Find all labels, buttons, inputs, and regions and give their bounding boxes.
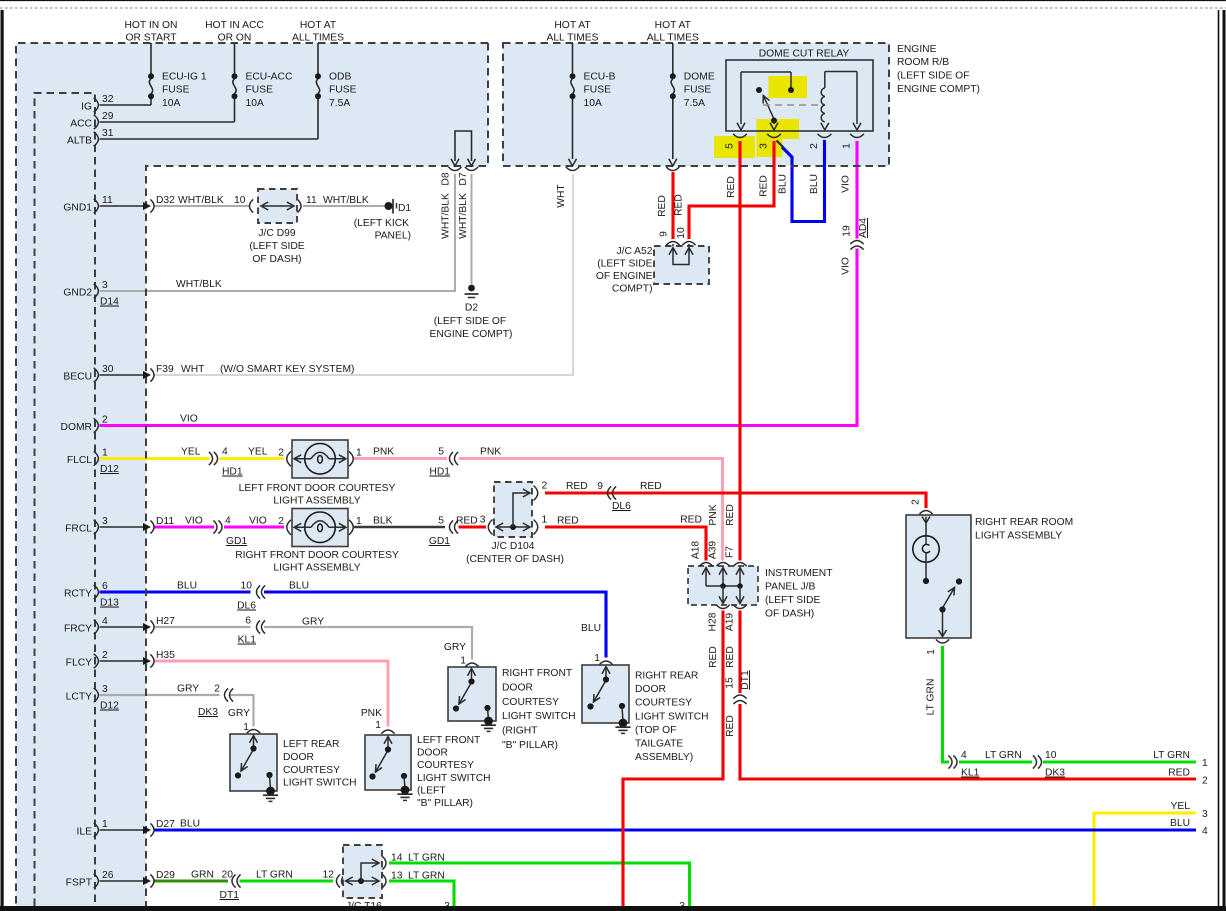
fuse ECU-ACC 10A	[234, 43, 236, 74]
svg-text:ENGINE COMPT): ENGINE COMPT)	[430, 329, 513, 340]
svg-text:29: 29	[102, 111, 114, 122]
svg-text:12: 12	[323, 870, 335, 881]
svg-text:ECU-B: ECU-B	[584, 72, 616, 83]
switch box	[365, 735, 411, 790]
svg-text:OF DASH): OF DASH)	[252, 254, 301, 265]
svg-text:13: 13	[391, 871, 403, 882]
switch arm	[594, 682, 606, 702]
svg-text:FLCY: FLCY	[66, 658, 92, 669]
svg-text:3: 3	[102, 516, 108, 527]
svg-text:YEL: YEL	[248, 447, 268, 458]
svg-text:10A: 10A	[162, 98, 180, 109]
svg-text:D8: D8	[441, 172, 452, 185]
wire YEL FLCL pin to HD1	[100, 457, 210, 460]
svg-text:BLU: BLU	[581, 623, 601, 634]
svg-text:LT GRN: LT GRN	[408, 871, 445, 882]
svg-text:BLU: BLU	[180, 819, 200, 830]
svg-text:RED: RED	[725, 504, 736, 526]
svg-text:RED: RED	[456, 516, 478, 527]
svg-text:RED: RED	[674, 194, 685, 216]
svg-text:3: 3	[1202, 809, 1208, 820]
svg-text:19: 19	[842, 225, 853, 237]
svg-text:HD1: HD1	[429, 467, 450, 478]
junction J/C D104	[494, 482, 532, 537]
svg-text:2: 2	[1202, 776, 1208, 787]
svg-text:7.5A: 7.5A	[684, 98, 705, 109]
wire D32 box exit arrow	[100, 205, 144, 207]
svg-text:10: 10	[241, 581, 253, 592]
svg-text:"B" PILLAR): "B" PILLAR)	[417, 798, 473, 809]
svg-text:ECU-IG 1: ECU-IG 1	[162, 72, 207, 83]
svg-text:D2: D2	[465, 303, 478, 314]
switch fixed contact to ground	[619, 703, 625, 709]
svg-text:VIO: VIO	[841, 175, 852, 193]
svg-text:VIO: VIO	[185, 516, 203, 527]
relay pin 1 connector	[850, 134, 864, 138]
wire GRY DK3 to left rear door switch	[230, 695, 254, 727]
svg-text:(LEFT KICK: (LEFT KICK	[354, 218, 409, 229]
svg-text:RIGHT REAR: RIGHT REAR	[635, 671, 698, 682]
svg-text:2: 2	[214, 684, 220, 695]
svg-text:PANEL): PANEL)	[375, 231, 411, 242]
svg-text:PNK: PNK	[708, 504, 719, 525]
wire WHT/BLK D7 to D2 ground	[471, 174, 473, 284]
svg-text:WHT: WHT	[556, 184, 567, 208]
wire D29 box exit arrow	[100, 880, 144, 882]
svg-text:LCTY: LCTY	[66, 692, 92, 703]
svg-text:ODB: ODB	[329, 72, 351, 83]
svg-text:"B" PILLAR): "B" PILLAR)	[502, 740, 558, 751]
svg-text:J/C D104: J/C D104	[492, 541, 535, 552]
svg-text:10A: 10A	[584, 98, 602, 109]
wire D27 box exit arrow	[100, 829, 144, 831]
svg-text:(LEFT SIDE OF: (LEFT SIDE OF	[434, 316, 506, 327]
ground	[619, 719, 628, 728]
svg-text:1: 1	[102, 448, 108, 459]
svg-text:3: 3	[102, 280, 108, 291]
svg-text:LIGHT ASSEMBLY: LIGHT ASSEMBLY	[273, 496, 360, 507]
svg-text:F7: F7	[725, 546, 736, 558]
svg-text:GRY: GRY	[444, 642, 466, 653]
svg-text:ACC: ACC	[70, 119, 92, 130]
svg-text:WHT/BLK: WHT/BLK	[323, 195, 369, 206]
ground	[401, 786, 410, 795]
svg-text:GND1: GND1	[63, 203, 92, 214]
svg-text:ECU-ACC: ECU-ACC	[246, 72, 293, 83]
connector 4 GD1	[213, 520, 217, 533]
svg-text:RIGHT FRONT DOOR COURTESY: RIGHT FRONT DOOR COURTESY	[235, 550, 399, 561]
wire RED instrument panel A19 to DT1 to right edge row 2	[738, 611, 741, 694]
svg-text:D7: D7	[458, 172, 469, 185]
svg-text:ALTB: ALTB	[67, 136, 92, 147]
svg-text:5: 5	[438, 447, 444, 458]
switch pin arrow	[384, 737, 392, 744]
wire WHT/BLK GND2 to D8	[100, 174, 456, 291]
wire BLU dome cut relay pin3 to pin2	[782, 140, 825, 222]
svg-text:3: 3	[102, 684, 108, 695]
svg-text:FUSE: FUSE	[246, 85, 274, 96]
svg-text:COMPT): COMPT)	[612, 284, 653, 295]
svg-text:GRY: GRY	[228, 708, 250, 719]
svg-text:D11: D11	[156, 516, 174, 527]
svg-text:4: 4	[222, 447, 228, 458]
svg-text:YEL: YEL	[181, 447, 201, 458]
wire VIO DOMR to dome cut relay pin 1	[100, 249, 858, 426]
svg-text:LIGHT SWITCH: LIGHT SWITCH	[417, 773, 491, 784]
fuse ECU-IG 1 10A	[150, 43, 152, 74]
relay DOME CUT RELAY box	[726, 60, 873, 131]
svg-text:LEFT FRONT DOOR COURTESY: LEFT FRONT DOOR COURTESY	[239, 483, 396, 494]
switch arm	[376, 752, 388, 772]
svg-text:DOMR: DOMR	[61, 422, 92, 433]
background blue region: engine ECU / left column box fill	[16, 43, 488, 166]
wire VIO FRCL D11 to GD1	[154, 525, 214, 528]
svg-text:1: 1	[356, 447, 362, 458]
wire BLU RCTY to DL6	[100, 590, 251, 593]
svg-text:DOOR: DOOR	[502, 682, 533, 693]
svg-text:DK3: DK3	[1045, 768, 1065, 779]
svg-text:3: 3	[480, 515, 486, 526]
svg-text:1: 1	[460, 656, 466, 667]
wire LT GRN right rear room light to KL1 DK3 row 1	[943, 646, 950, 762]
svg-text:RIGHT FRONT: RIGHT FRONT	[502, 668, 573, 679]
svg-text:11: 11	[306, 195, 317, 206]
svg-text:OR ON: OR ON	[218, 33, 252, 44]
switch pin arrow	[468, 669, 476, 676]
svg-text:TAILGATE: TAILGATE	[635, 739, 683, 750]
connector 4 HD1	[209, 452, 213, 465]
svg-text:BLU: BLU	[177, 581, 197, 592]
svg-text:HOT IN ACC: HOT IN ACC	[205, 20, 264, 31]
svg-text:DOOR: DOOR	[635, 684, 666, 695]
svg-text:BECU: BECU	[63, 372, 92, 383]
svg-text:HOT AT: HOT AT	[554, 20, 591, 31]
svg-text:20: 20	[222, 870, 234, 881]
svg-text:A18: A18	[691, 541, 702, 560]
svg-text:D32: D32	[156, 195, 175, 206]
svg-text:OR START: OR START	[125, 33, 177, 44]
lamp connectors	[287, 451, 291, 466]
svg-text:GRN: GRN	[191, 870, 214, 881]
svg-text:4: 4	[1202, 826, 1208, 837]
svg-text:FRCL: FRCL	[65, 524, 92, 535]
highlight over relay pin 5	[714, 136, 755, 158]
wire D11 box exit arrow	[100, 526, 144, 528]
relay pin 2 connector	[818, 134, 832, 138]
svg-text:10: 10	[1045, 750, 1057, 761]
svg-text:RED: RED	[725, 646, 736, 668]
svg-text:30: 30	[102, 364, 114, 375]
wire LT GRN DT1 to J/C T16	[240, 879, 334, 882]
svg-text:(RIGHT: (RIGHT	[502, 726, 538, 737]
svg-text:2: 2	[542, 481, 548, 492]
svg-text:F39: F39	[156, 364, 174, 375]
svg-text:BLU: BLU	[778, 174, 789, 194]
connector 10 DK3 row1	[1033, 755, 1037, 768]
svg-text:GRY: GRY	[177, 684, 199, 695]
svg-text:LT GRN: LT GRN	[256, 870, 293, 881]
engine room R/B dashed box border	[503, 43, 889, 166]
svg-text:LT GRN: LT GRN	[985, 750, 1022, 761]
svg-text:DOME: DOME	[684, 72, 715, 83]
wire GRY FRCY to KL1	[154, 626, 251, 628]
svg-text:FRCY: FRCY	[64, 624, 92, 635]
svg-text:4: 4	[961, 750, 967, 761]
svg-text:(LEFT SIDE: (LEFT SIDE	[249, 241, 304, 252]
svg-text:GRY: GRY	[302, 617, 324, 628]
ground	[484, 717, 493, 726]
svg-text:BLU: BLU	[809, 174, 820, 194]
svg-text:COURTESY: COURTESY	[502, 697, 559, 708]
wire WHT/BLK J/C D99 to D1	[303, 205, 385, 207]
svg-text:DT1: DT1	[220, 890, 240, 901]
svg-text:3: 3	[759, 143, 770, 149]
svg-text:RED: RED	[557, 516, 579, 527]
svg-text:DOOR: DOOR	[417, 748, 448, 759]
svg-text:YEL: YEL	[1171, 801, 1191, 812]
svg-text:DK3: DK3	[198, 707, 218, 718]
wire GRN FSPT D29 to DT1	[154, 880, 228, 883]
ECU inner connector dashed box	[35, 93, 96, 906]
svg-text:LT GRN: LT GRN	[1153, 750, 1190, 761]
svg-text:10A: 10A	[246, 98, 264, 109]
wire PNK HD1 to instrument panel A39	[459, 459, 723, 561]
wire GRY LCTY to DK3	[100, 694, 220, 696]
svg-text:WHT/BLK: WHT/BLK	[178, 195, 224, 206]
svg-text:7.5A: 7.5A	[329, 98, 350, 109]
svg-text:5: 5	[725, 143, 736, 149]
relay coil frame	[825, 71, 857, 73]
lamp bulb	[305, 444, 336, 475]
svg-text:KL1: KL1	[238, 635, 257, 646]
svg-text:RED: RED	[708, 646, 719, 668]
svg-text:2: 2	[278, 447, 284, 458]
highlight under relay pin 3	[757, 139, 783, 157]
svg-text:RED: RED	[725, 715, 736, 737]
svg-text:HOT AT: HOT AT	[655, 20, 692, 31]
highlight over relay contact	[769, 76, 808, 98]
svg-text:RED: RED	[1168, 768, 1190, 779]
courtesy lamp box	[292, 440, 348, 478]
wire H35 box exit arrow	[100, 660, 144, 662]
svg-text:FUSE: FUSE	[162, 85, 190, 96]
wire WHT BECU F39 to ECU-B fuse	[154, 174, 573, 375]
svg-text:10: 10	[234, 195, 246, 206]
svg-text:ILE: ILE	[77, 827, 93, 838]
background blue region: engine room R/B box fill	[503, 43, 889, 166]
page frame	[0, 0, 1226, 2]
svg-text:2: 2	[102, 415, 108, 426]
wire RED GD1 to J/C D104 pin 3	[459, 525, 487, 528]
fuse DOME 7.5A	[672, 43, 674, 74]
wire BLU ILE row 4	[154, 828, 1196, 831]
svg-text:BLU: BLU	[289, 581, 309, 592]
svg-text:PNK: PNK	[480, 447, 501, 458]
svg-text:WHT/BLK: WHT/BLK	[176, 279, 222, 290]
junction J/C A52	[654, 246, 709, 284]
switch fixed contact to ground	[484, 705, 490, 711]
lamp connectors	[287, 520, 291, 535]
wire RED instrument panel H28 down-left to bottom	[623, 611, 723, 907]
svg-text:COURTESY: COURTESY	[283, 765, 340, 776]
switch box	[230, 734, 277, 791]
svg-text:LIGHT ASSEMBLY: LIGHT ASSEMBLY	[975, 531, 1062, 542]
wire BLK FRCL lamp to GD1	[354, 526, 445, 528]
wire WHT/BLK GND1 to J/C D99	[154, 205, 250, 207]
svg-text:FUSE: FUSE	[584, 85, 612, 96]
svg-text:DOOR: DOOR	[283, 752, 314, 763]
relay pin 5 connector	[733, 134, 747, 138]
svg-text:1: 1	[356, 516, 362, 527]
svg-text:FUSE: FUSE	[684, 85, 712, 96]
wire GRY KL1 to right front door switch	[264, 627, 472, 660]
svg-text:4: 4	[225, 516, 231, 527]
svg-text:VIO: VIO	[841, 257, 852, 275]
wire RED J/C D104 pin 2 to right rear room light	[545, 493, 926, 508]
svg-text:KL1: KL1	[961, 768, 980, 779]
svg-text:(W/O SMART KEY SYSTEM): (W/O SMART KEY SYSTEM)	[220, 364, 354, 375]
junction instrument panel J/B	[688, 566, 758, 605]
svg-text:2: 2	[911, 499, 922, 505]
svg-text:H35: H35	[156, 650, 175, 661]
svg-text:LIGHT ASSEMBLY: LIGHT ASSEMBLY	[273, 563, 360, 574]
svg-text:GD1: GD1	[429, 536, 450, 547]
svg-text:9: 9	[659, 231, 670, 237]
svg-text:15: 15	[725, 677, 736, 689]
svg-text:HOT IN ON: HOT IN ON	[124, 20, 177, 31]
svg-text:11: 11	[102, 195, 113, 206]
svg-text:HOT AT: HOT AT	[300, 20, 337, 31]
svg-text:D27: D27	[156, 819, 175, 830]
svg-text:1: 1	[375, 720, 381, 731]
svg-text:PNK: PNK	[373, 447, 394, 458]
switch pin arrow	[250, 736, 258, 743]
fuse ODB 7.5A	[317, 43, 319, 74]
svg-text:ENGINE: ENGINE	[897, 44, 937, 55]
svg-text:WHT/BLK: WHT/BLK	[441, 193, 452, 239]
lamp bulb	[305, 512, 336, 543]
svg-text:VIO: VIO	[180, 414, 198, 425]
switch box	[582, 665, 629, 723]
svg-text:FUSE: FUSE	[329, 85, 357, 96]
wire RED J/C D104 pin 1 to instrument panel A18	[545, 527, 706, 561]
svg-text:LIGHT SWITCH: LIGHT SWITCH	[502, 711, 576, 722]
svg-text:ALL TIMES: ALL TIMES	[546, 33, 598, 44]
svg-text:PNK: PNK	[361, 708, 382, 719]
svg-text:DL6: DL6	[612, 501, 631, 512]
wire RED relay pin 5 to instrument panel F7	[738, 141, 741, 561]
svg-text:1: 1	[926, 649, 937, 655]
switch fixed contact to ground	[266, 772, 272, 778]
svg-text:(LEFT SIDE: (LEFT SIDE	[765, 595, 820, 606]
svg-text:(CENTER OF DASH): (CENTER OF DASH)	[466, 554, 564, 565]
svg-text:LT GRN: LT GRN	[408, 853, 445, 864]
svg-text:(LEFT SIDE OF: (LEFT SIDE OF	[897, 71, 969, 82]
svg-text:1: 1	[842, 143, 853, 149]
svg-text:ROOM R/B: ROOM R/B	[897, 57, 949, 68]
connector 19 AD4 on VIO	[850, 240, 863, 244]
relay internal contact frame	[741, 71, 791, 73]
wire RED relay pin 3 to J/C A52 pin 10	[689, 141, 774, 239]
svg-text:ENGINE COMPT): ENGINE COMPT)	[897, 84, 980, 95]
relay fixed contact	[756, 87, 762, 93]
svg-text:LIGHT SWITCH: LIGHT SWITCH	[283, 778, 357, 789]
svg-text:D12: D12	[100, 701, 119, 712]
svg-text:D12: D12	[100, 464, 119, 475]
svg-text:DL6: DL6	[237, 601, 256, 612]
svg-text:VIO: VIO	[249, 516, 267, 527]
ground D2	[468, 285, 475, 292]
relay pin 1 terminal	[856, 72, 858, 125]
wire F39 box exit arrow	[100, 374, 144, 376]
svg-text:6: 6	[245, 616, 251, 627]
svg-text:1: 1	[542, 515, 548, 526]
svg-text:FSPT: FSPT	[66, 878, 93, 889]
wire YEL right edge row 3	[1094, 813, 1196, 906]
switch pin arrow	[602, 667, 610, 674]
highlight over relay pin 3	[757, 119, 800, 139]
engine ECU dashed box border	[16, 43, 488, 906]
svg-text:(TOP OF: (TOP OF	[635, 725, 676, 736]
svg-text:LT GRN: LT GRN	[926, 679, 937, 716]
switch fixed contact to ground	[401, 773, 407, 779]
svg-text:GD1: GD1	[226, 536, 247, 547]
svg-text:RED: RED	[657, 195, 668, 217]
svg-text:LEFT FRONT: LEFT FRONT	[417, 735, 481, 746]
svg-text:RCTY: RCTY	[64, 589, 92, 600]
svg-text:26: 26	[102, 870, 114, 881]
wire LT GRN J/C T16 pin 13	[389, 881, 454, 906]
svg-text:14: 14	[391, 853, 403, 864]
svg-text:5: 5	[438, 516, 444, 527]
svg-text:DT1: DT1	[740, 670, 751, 690]
svg-text:RED: RED	[759, 175, 770, 197]
svg-text:ALL TIMES: ALL TIMES	[292, 33, 344, 44]
splice D1	[385, 202, 393, 210]
svg-text:9: 9	[597, 481, 603, 492]
wire RED dome fuse to J/C A52 pin 9	[671, 172, 674, 239]
svg-text:(LEFT SIDE: (LEFT SIDE	[597, 259, 652, 270]
svg-text:J/C A52: J/C A52	[616, 246, 652, 257]
svg-text:2: 2	[278, 516, 284, 527]
svg-text:WHT: WHT	[181, 364, 205, 375]
svg-text:10: 10	[676, 227, 687, 239]
svg-text:COURTESY: COURTESY	[635, 698, 692, 709]
svg-text:32: 32	[102, 94, 114, 105]
svg-text:RIGHT REAR ROOM: RIGHT REAR ROOM	[975, 517, 1073, 528]
svg-text:BLU: BLU	[1170, 818, 1190, 829]
svg-text:WHT/BLK: WHT/BLK	[458, 193, 469, 239]
svg-text:RED: RED	[680, 515, 702, 526]
svg-text:1: 1	[594, 653, 600, 664]
svg-text:INSTRUMENT: INSTRUMENT	[765, 568, 833, 579]
svg-text:31: 31	[102, 128, 114, 139]
svg-text:RED: RED	[726, 176, 737, 198]
svg-text:2: 2	[809, 143, 820, 149]
svg-text:(LEFT: (LEFT	[417, 785, 446, 796]
svg-text:IG: IG	[81, 102, 92, 113]
svg-text:ALL TIMES: ALL TIMES	[647, 33, 699, 44]
svg-text:D13: D13	[100, 598, 119, 609]
svg-text:J/C D99: J/C D99	[258, 228, 295, 239]
relay mechanical link dashed	[763, 104, 820, 106]
wire PNK FLCL lamp to HD1	[354, 457, 447, 460]
svg-text:1: 1	[1202, 758, 1208, 769]
svg-text:BLK: BLK	[373, 516, 393, 527]
svg-text:4: 4	[102, 616, 108, 627]
switch arm	[241, 751, 253, 771]
switch box	[448, 667, 496, 721]
